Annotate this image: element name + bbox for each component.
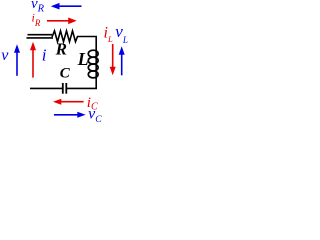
svg-text:i: i <box>42 46 47 65</box>
svg-text:C: C <box>60 65 71 81</box>
svg-text:L: L <box>77 49 89 69</box>
svg-text:R: R <box>55 40 67 59</box>
svg-text:v: v <box>1 47 9 64</box>
